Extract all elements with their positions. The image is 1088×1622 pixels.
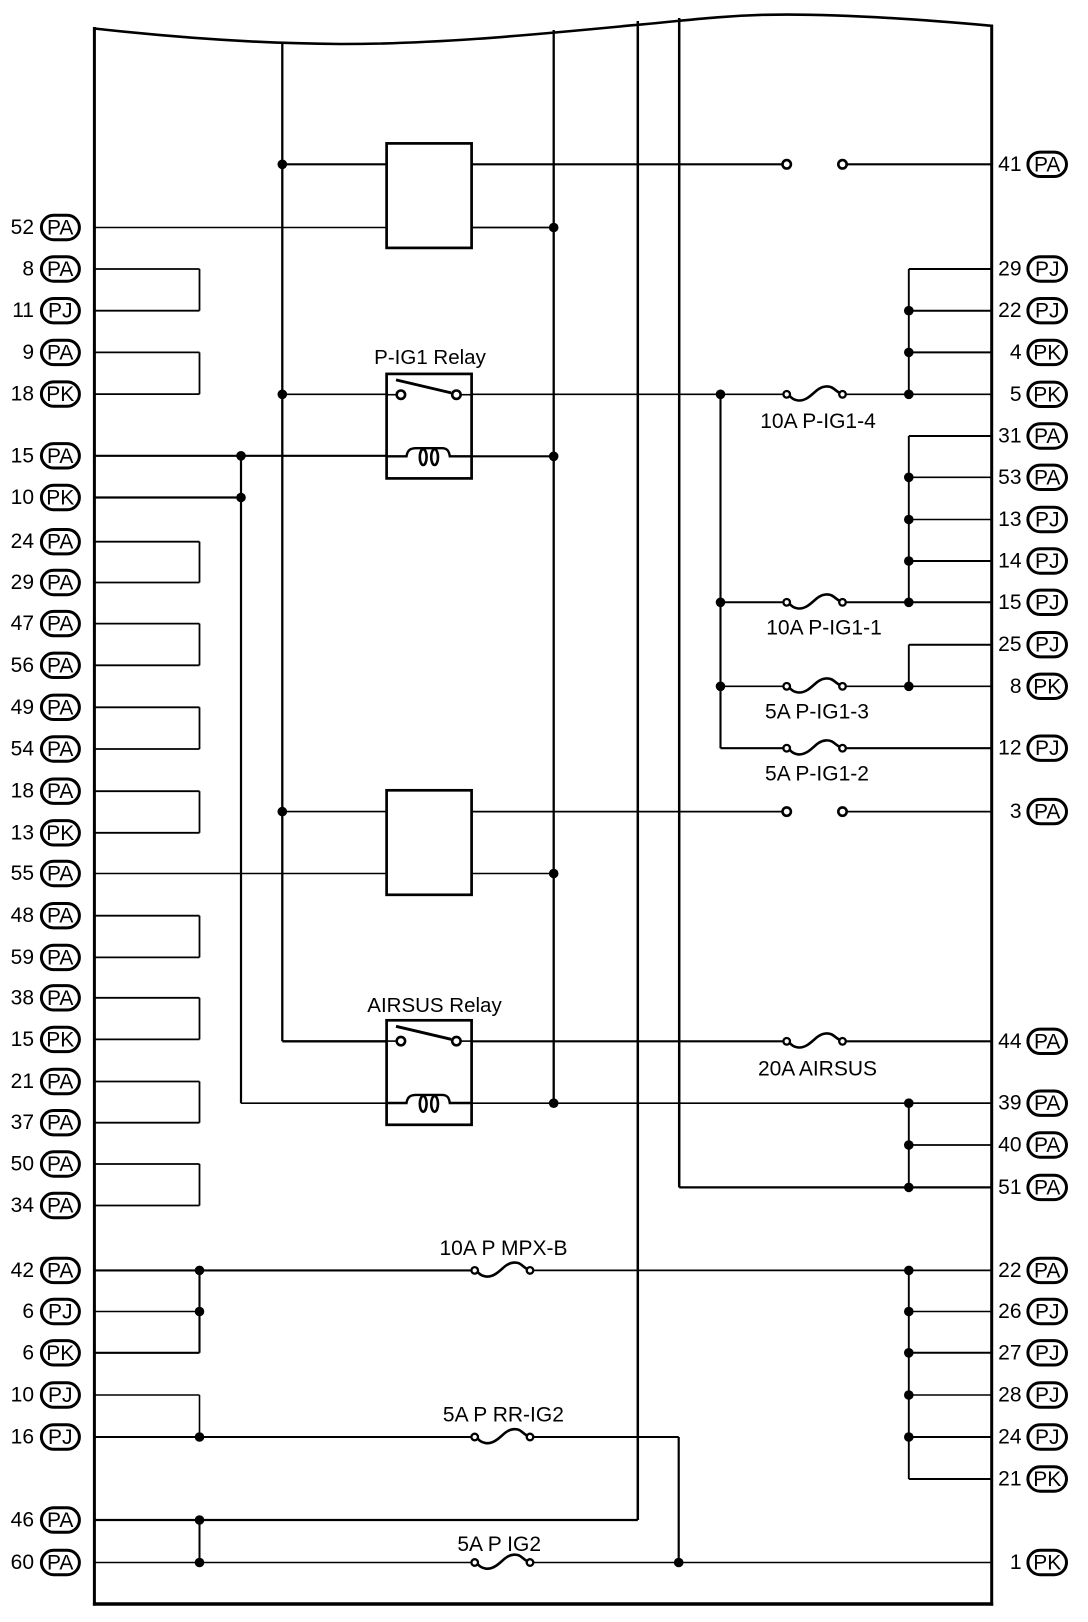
svg-text:PJ: PJ — [1035, 550, 1060, 573]
svg-text:PJ: PJ — [1035, 509, 1060, 532]
label P-IG1 Relay — [374, 346, 486, 369]
fuse 10A P-IG1-1 — [766, 594, 882, 639]
svg-text:3: 3 — [1010, 800, 1022, 823]
label AIRSUS Relay — [367, 994, 502, 1017]
svg-text:15: 15 — [11, 1028, 34, 1051]
pin 12 PJ (right) — [998, 736, 1066, 760]
pin 28 PJ (right) — [998, 1383, 1066, 1407]
wire 6 PK row — [94, 1352, 199, 1354]
junction bracket / 22 PA — [904, 1266, 914, 1276]
svg-text:PA: PA — [47, 1552, 73, 1575]
pin 18 PA (left) — [11, 779, 80, 803]
svg-text:8: 8 — [22, 258, 34, 281]
pin 9 PA (left) — [22, 340, 79, 364]
svg-text:25: 25 — [998, 633, 1021, 656]
pin 47 PA (left) — [11, 611, 80, 635]
svg-text:PJ: PJ — [48, 1384, 73, 1407]
svg-text:PA: PA — [47, 780, 73, 803]
svg-text:PK: PK — [46, 383, 74, 406]
shorting bracket 9 PA-18 PK — [94, 352, 199, 394]
svg-text:13: 13 — [998, 508, 1021, 531]
svg-text:29: 29 — [11, 571, 34, 594]
svg-text:5A P-IG1-3: 5A P-IG1-3 — [765, 701, 869, 724]
junction bus A / P-IG1 switch wire — [278, 390, 288, 400]
svg-text:6: 6 — [22, 1341, 34, 1364]
wire 21 PK row — [909, 1478, 992, 1480]
svg-text:41: 41 — [998, 153, 1021, 176]
fuse 10A P-IG1-4 — [760, 386, 876, 433]
svg-text:PJ: PJ — [48, 1426, 73, 1449]
pin 59 PA (left) — [11, 945, 80, 969]
wire 13 PJ row — [909, 519, 992, 521]
svg-text:42: 42 — [11, 1259, 34, 1282]
pin 6 PK (left) — [22, 1341, 79, 1365]
junction bracket / 51 PA — [904, 1183, 914, 1193]
svg-text:PK: PK — [46, 487, 74, 510]
svg-text:55: 55 — [11, 862, 34, 885]
shorting bracket 49 PA-54 PA — [94, 707, 199, 749]
wire 26 PJ row — [909, 1311, 992, 1313]
svg-text:PA: PA — [47, 217, 73, 240]
svg-text:PA: PA — [1034, 1092, 1060, 1115]
svg-text:10A P-IG1-4: 10A P-IG1-4 — [760, 410, 876, 433]
svg-text:26: 26 — [998, 1300, 1021, 1323]
svg-text:49: 49 — [11, 696, 34, 719]
svg-text:PJ: PJ — [1035, 634, 1060, 657]
pin 24 PJ (right) — [998, 1425, 1066, 1449]
svg-text:PA: PA — [47, 1112, 73, 1135]
pin 53 PA (right) — [998, 465, 1066, 489]
svg-text:PA: PA — [1034, 801, 1060, 824]
wire 39 PA bracket row — [909, 1102, 992, 1104]
pin 24 PA (left) — [11, 530, 80, 554]
wire relay1 top-left from bus A — [282, 163, 386, 165]
junction bus F top (5 PK row) — [716, 390, 726, 400]
bracket 39PA-51PA vertical — [908, 1103, 910, 1187]
fuse 5A P-IG1-2 — [765, 740, 869, 785]
shorting bracket 48 PA-59 PA — [94, 916, 199, 958]
svg-text:PA: PA — [47, 341, 73, 364]
wire 16 PJ row to fuse RR-IG2 — [94, 1436, 471, 1438]
junction bus E / 10 PK row — [236, 493, 246, 503]
wire bus F corner to fuse P-IG1-2 — [721, 747, 784, 749]
wire relay3 top-right to open contact — [472, 811, 783, 813]
bus wire B (x=554) — [553, 30, 555, 1103]
svg-text:15: 15 — [998, 591, 1021, 614]
svg-text:5: 5 — [1010, 383, 1022, 406]
pin 31 PA (right) — [998, 424, 1066, 448]
pin 15 PA (left) — [11, 444, 80, 468]
pin 55 PA (left) — [11, 861, 80, 885]
junction bracket / 53 PA — [904, 473, 914, 483]
wire relay3 bottom-right to bus B — [472, 873, 554, 875]
junction bracket / 13 PJ — [904, 515, 914, 525]
svg-text:21: 21 — [11, 1070, 34, 1093]
pin 18 PK (left) — [11, 382, 80, 406]
fuse 20A AIRSUS — [758, 1033, 877, 1080]
wire fuse P-IG1-4 to 5 PK — [846, 393, 992, 395]
junction bus F / 8 PK row — [716, 682, 726, 692]
wire AIRSUS switch-left from bus A — [282, 1040, 386, 1042]
svg-text:5A P RR-IG2: 5A P RR-IG2 — [443, 1404, 564, 1427]
svg-text:16: 16 — [11, 1426, 34, 1449]
wire AIRSUS coil-right (39 PA row) — [472, 1102, 992, 1104]
svg-text:PA: PA — [47, 654, 73, 677]
svg-text:20A AIRSUS: 20A AIRSUS — [758, 1058, 877, 1081]
wire fuse MPX-B to 22 PA — [533, 1269, 991, 1271]
wire relay1 top-right to open contact — [472, 163, 783, 165]
wire P-IG1 coil-left (15 PA row) — [94, 455, 386, 457]
relay box (middle unlabeled) — [387, 790, 472, 895]
fuse 5A P RR-IG2 — [443, 1404, 564, 1444]
pin 21 PK (right) — [998, 1467, 1066, 1491]
svg-text:PJ: PJ — [1035, 258, 1060, 281]
junction left bracket / 42 PA — [195, 1266, 205, 1276]
svg-text:21: 21 — [998, 1468, 1021, 1491]
bus wire E (x=241) — [240, 456, 242, 1103]
wire relay3 bottom-left (55 PA row) — [94, 873, 386, 875]
wire AIRSUS switch-right to fuse 20A — [472, 1040, 784, 1042]
svg-text:PK: PK — [1033, 1552, 1061, 1575]
pin 21 PA (left) — [11, 1069, 80, 1093]
wire 27 PJ row — [909, 1352, 992, 1354]
svg-text:PJ: PJ — [48, 1301, 73, 1324]
pin 56 PA (left) — [11, 653, 80, 677]
wire AIRSUS coil-left from bus E — [241, 1102, 387, 1104]
pin 34 PA (left) — [11, 1193, 80, 1217]
svg-text:18: 18 — [11, 383, 34, 406]
wire P-IG1 switch-right to fuse P-IG1-4 — [472, 393, 784, 395]
junction bus A / relay3 top wire — [278, 807, 288, 817]
relay AIRSUS switch contact — [387, 1026, 472, 1045]
svg-text:52: 52 — [11, 216, 34, 239]
pin 13 PJ (right) — [998, 507, 1066, 531]
svg-text:5A P IG2: 5A P IG2 — [457, 1533, 541, 1556]
svg-text:48: 48 — [11, 904, 34, 927]
svg-text:PA: PA — [47, 572, 73, 595]
bracket 31PA-15PJ vertical — [908, 436, 910, 602]
junction left bracket / 46 PA — [195, 1515, 205, 1525]
pin 3 PA (right) — [1010, 799, 1067, 823]
wire node down to 1 PK row — [678, 1437, 680, 1563]
junction bracket / 14 PJ — [904, 556, 914, 566]
svg-text:15: 15 — [11, 444, 34, 467]
svg-text:39: 39 — [998, 1092, 1021, 1115]
svg-text:PA: PA — [47, 946, 73, 969]
svg-text:29: 29 — [998, 258, 1021, 281]
svg-text:PA: PA — [1034, 1259, 1060, 1282]
bus wire D (x=679) — [678, 18, 681, 1187]
svg-text:PA: PA — [1034, 153, 1060, 176]
junction left bracket / 60 PA — [195, 1558, 205, 1568]
svg-text:PJ: PJ — [1035, 1301, 1060, 1324]
junction node / 1 PK row — [674, 1558, 684, 1568]
bracket 29PJ-5PK vertical — [908, 269, 910, 394]
junction bracket / 4 PK — [904, 348, 914, 358]
svg-text:54: 54 — [11, 738, 35, 761]
junction bus F / 15 PJ row — [716, 598, 726, 608]
pin 8 PA (left) — [22, 257, 79, 281]
wire fuse RR-IG2 output to node — [533, 1436, 678, 1438]
svg-text:PJ: PJ — [1035, 737, 1060, 760]
shorting bracket 38 PA-15 PK — [94, 998, 199, 1040]
pin 16 PJ (left) — [11, 1425, 80, 1449]
pin 37 PA (left) — [11, 1111, 80, 1135]
svg-text:PJ: PJ — [48, 300, 73, 323]
svg-text:AIRSUS Relay: AIRSUS Relay — [367, 994, 502, 1017]
wire 46 PA row to bus C — [94, 1519, 637, 1521]
pin 1 PK (right) — [1010, 1550, 1067, 1574]
wire relay3 top-left from bus A — [282, 811, 386, 813]
svg-text:11: 11 — [12, 299, 34, 322]
svg-text:50: 50 — [11, 1153, 34, 1176]
svg-text:PK: PK — [1033, 341, 1061, 364]
svg-text:PJ: PJ — [1035, 1384, 1060, 1407]
svg-text:10A P-IG1-1: 10A P-IG1-1 — [766, 617, 882, 640]
junction bracket / 40 PA — [904, 1140, 914, 1150]
open contact pair (3 PA row) — [783, 807, 847, 815]
svg-text:56: 56 — [11, 654, 34, 677]
pin 42 PA (left) — [11, 1258, 80, 1282]
wire 4 PK row — [909, 351, 992, 353]
pin 39 PA (right) — [998, 1091, 1066, 1115]
svg-text:27: 27 — [998, 1341, 1021, 1364]
pin 10 PJ (left) — [11, 1383, 80, 1407]
svg-text:1: 1 — [1010, 1551, 1022, 1574]
relay P-IG1 coil — [387, 448, 472, 465]
pin 15 PK (left) — [11, 1027, 80, 1051]
fuse 10A P MPX-B — [439, 1237, 567, 1277]
pin 29 PJ (right) — [998, 257, 1066, 281]
wire bus F to fuse P-IG1-3 — [721, 685, 784, 687]
wire fuse P-IG1-2 to 12 PJ — [846, 747, 992, 749]
wire 10 PK row to bus E — [94, 496, 241, 498]
wire fuse P IG2 to 1 PK — [533, 1562, 991, 1564]
svg-text:51: 51 — [998, 1176, 1021, 1199]
pin 5 PK (right) — [1010, 382, 1067, 406]
svg-text:8: 8 — [1010, 675, 1022, 698]
svg-text:5A P-IG1-2: 5A P-IG1-2 — [765, 763, 869, 786]
svg-text:PA: PA — [47, 1509, 73, 1532]
junction bus E / 15 PA row — [236, 451, 246, 461]
svg-text:PA: PA — [1034, 425, 1060, 448]
svg-text:24: 24 — [998, 1426, 1022, 1449]
pin 22 PJ (right) — [998, 299, 1066, 323]
wire 60 PA row to fuse P IG2 — [94, 1562, 471, 1564]
svg-text:13: 13 — [11, 821, 34, 844]
wire P-IG1 coil-right to bus B — [472, 455, 554, 457]
pin 11 PJ (left) — [12, 299, 79, 323]
wire fuse P-IG1-3 to 8 PK — [846, 685, 992, 687]
svg-text:46: 46 — [11, 1509, 34, 1532]
pin 54 PA (left) — [11, 737, 80, 761]
svg-text:28: 28 — [998, 1384, 1021, 1407]
svg-text:PA: PA — [47, 738, 73, 761]
junction bus B / coil wire — [549, 452, 559, 462]
pin 44 PA (right) — [998, 1029, 1066, 1053]
junction bracket / 27 PJ — [904, 1348, 914, 1358]
svg-text:PK: PK — [46, 822, 74, 845]
wire bus F to fuse P-IG1-1 — [721, 601, 784, 603]
svg-text:38: 38 — [11, 986, 34, 1009]
svg-text:PK: PK — [46, 1342, 74, 1365]
wire 22 PJ row — [909, 310, 992, 312]
junction bracket / 39 PA — [904, 1098, 914, 1108]
svg-text:PA: PA — [47, 258, 73, 281]
shorting bracket 47 PA-56 PA — [94, 624, 199, 666]
pin 22 PA (right) — [998, 1258, 1066, 1282]
junction bracket / 8 PK row — [904, 682, 914, 692]
junction bracket / 15 PJ row — [904, 598, 914, 608]
junction bus A / relay1 top wire — [278, 160, 288, 170]
svg-text:10: 10 — [11, 1384, 34, 1407]
pin 48 PA (left) — [11, 904, 80, 928]
svg-text:60: 60 — [11, 1551, 34, 1574]
relay P-IG1 box — [387, 374, 472, 479]
svg-text:PA: PA — [47, 613, 73, 636]
bracket 10PJ-16PJ vertical — [199, 1395, 201, 1437]
pin 50 PA (left) — [11, 1152, 80, 1176]
wire 40 PA row — [909, 1144, 992, 1146]
svg-text:PJ: PJ — [1035, 1426, 1060, 1449]
svg-text:10A P MPX-B: 10A P MPX-B — [439, 1237, 567, 1260]
svg-text:PA: PA — [47, 1195, 73, 1218]
junction left bracket / 16 PJ — [195, 1432, 205, 1442]
shorting bracket 50 PA-34 PA — [94, 1164, 199, 1206]
pin 8 PK (right) — [1010, 674, 1067, 698]
svg-text:47: 47 — [11, 612, 34, 635]
svg-text:PA: PA — [47, 863, 73, 886]
open contact pair (41 PA row) — [783, 160, 847, 168]
svg-text:40: 40 — [998, 1134, 1021, 1157]
wire 42 PA row to fuse MPX-B — [94, 1269, 471, 1271]
pin 4 PK (right) — [1010, 340, 1067, 364]
pin 25 PJ (right) — [998, 633, 1066, 657]
svg-text:37: 37 — [11, 1111, 34, 1134]
wire relay1 bottom-left (52 PA row) — [94, 227, 386, 229]
svg-text:PA: PA — [47, 445, 73, 468]
wire open contact to 41 PA — [847, 163, 992, 165]
pin 15 PJ (right) — [998, 590, 1066, 614]
shorting bracket 8 PA-11 PJ — [94, 269, 199, 311]
pin 13 PK (left) — [11, 821, 80, 845]
svg-text:PK: PK — [46, 1028, 74, 1051]
pin 40 PA (right) — [998, 1133, 1066, 1157]
bus wire C (x=638) — [637, 21, 640, 1520]
relay AIRSUS coil — [387, 1095, 472, 1112]
pin 46 PA (left) — [11, 1508, 80, 1532]
pin 26 PJ (right) — [998, 1299, 1066, 1323]
junction bracket / 5 PK row — [904, 390, 914, 400]
bracket 25PJ-8PK vertical — [908, 645, 910, 687]
svg-text:PA: PA — [1034, 466, 1060, 489]
svg-text:6: 6 — [22, 1300, 34, 1323]
svg-text:PA: PA — [47, 1259, 73, 1282]
bracket 22PA-21PK vertical — [908, 1270, 910, 1479]
bracket 42PA-6PK vertical — [198, 1270, 200, 1352]
svg-text:22: 22 — [998, 1259, 1021, 1282]
junction bus B / relay1 bottom wire — [549, 223, 559, 233]
svg-text:PA: PA — [47, 905, 73, 928]
svg-text:PK: PK — [1033, 383, 1061, 406]
junction left bracket / 6 PJ — [195, 1307, 205, 1317]
svg-text:59: 59 — [11, 946, 34, 969]
svg-text:PA: PA — [47, 1071, 73, 1094]
wire 14 PJ row — [909, 560, 992, 562]
svg-text:31: 31 — [998, 425, 1021, 448]
pin 38 PA (left) — [11, 986, 80, 1010]
svg-text:PA: PA — [47, 987, 73, 1010]
shorting bracket 18 PA-13 PK — [94, 791, 199, 833]
wire fuse 20A AIRSUS to 44 PA — [846, 1040, 992, 1042]
svg-text:4: 4 — [1010, 341, 1022, 364]
junction bracket / 22 PJ — [904, 306, 914, 316]
bracket 46PA-60PA vertical — [199, 1520, 201, 1563]
pin 49 PA (left) — [11, 695, 80, 719]
svg-text:PA: PA — [47, 696, 73, 719]
pin 52 PA (left) — [11, 215, 80, 239]
pin 60 PA (left) — [11, 1550, 80, 1574]
wire open contact to 3 PA — [847, 811, 992, 813]
svg-text:9: 9 — [22, 341, 34, 364]
pin 14 PJ (right) — [998, 549, 1066, 573]
wire 53 PA row — [909, 476, 992, 478]
svg-text:12: 12 — [998, 737, 1021, 760]
bus wire F (x=720) — [719, 394, 721, 748]
svg-text:PA: PA — [47, 1153, 73, 1176]
svg-text:10: 10 — [11, 486, 34, 509]
pin 29 PA (left) — [11, 570, 80, 594]
svg-text:18: 18 — [11, 780, 34, 803]
svg-text:PA: PA — [1034, 1030, 1060, 1053]
svg-text:PA: PA — [47, 531, 73, 554]
pin 41 PA (right) — [998, 152, 1066, 176]
wire 29 PJ row — [909, 268, 992, 270]
svg-text:44: 44 — [998, 1030, 1022, 1053]
svg-text:PJ: PJ — [1035, 300, 1060, 323]
junction bracket / 28 PJ — [904, 1390, 914, 1400]
wire P-IG1 switch-left from bus A — [282, 393, 386, 395]
wire 10 PJ row — [94, 1394, 199, 1396]
bus wire A (x=282) — [281, 43, 283, 1042]
pin 6 PJ (left) — [22, 1299, 79, 1323]
svg-text:22: 22 — [998, 299, 1021, 322]
svg-text:14: 14 — [998, 550, 1022, 573]
svg-text:PK: PK — [1033, 675, 1061, 698]
junction bracket / 24 PJ — [904, 1432, 914, 1442]
shorting bracket 24 PA-29 PA — [94, 542, 199, 583]
junction bus B / relay3 bottom wire — [549, 869, 559, 879]
svg-text:24: 24 — [11, 530, 35, 553]
wire fuse P-IG1-1 to 15 PJ — [846, 601, 992, 603]
relay P-IG1 switch contact — [387, 380, 472, 399]
relay AIRSUS box — [387, 1020, 472, 1125]
wire 25 PJ row — [909, 644, 992, 646]
pin 27 PJ (right) — [998, 1341, 1066, 1365]
svg-text:PJ: PJ — [1035, 1342, 1060, 1365]
svg-text:PJ: PJ — [1035, 591, 1060, 614]
wire relay1 bottom-right to bus B — [472, 227, 554, 229]
svg-text:P-IG1 Relay: P-IG1 Relay — [374, 346, 486, 369]
svg-text:34: 34 — [11, 1194, 35, 1217]
wire 6 PJ row — [94, 1311, 199, 1313]
relay box (top unlabeled) — [387, 143, 472, 248]
fuse 5A P IG2 — [457, 1533, 541, 1569]
junction bracket / 26 PJ — [904, 1307, 914, 1317]
wire 31 PA row — [909, 435, 992, 437]
wire 28 PJ row — [909, 1394, 992, 1396]
svg-text:PA: PA — [1034, 1176, 1060, 1199]
